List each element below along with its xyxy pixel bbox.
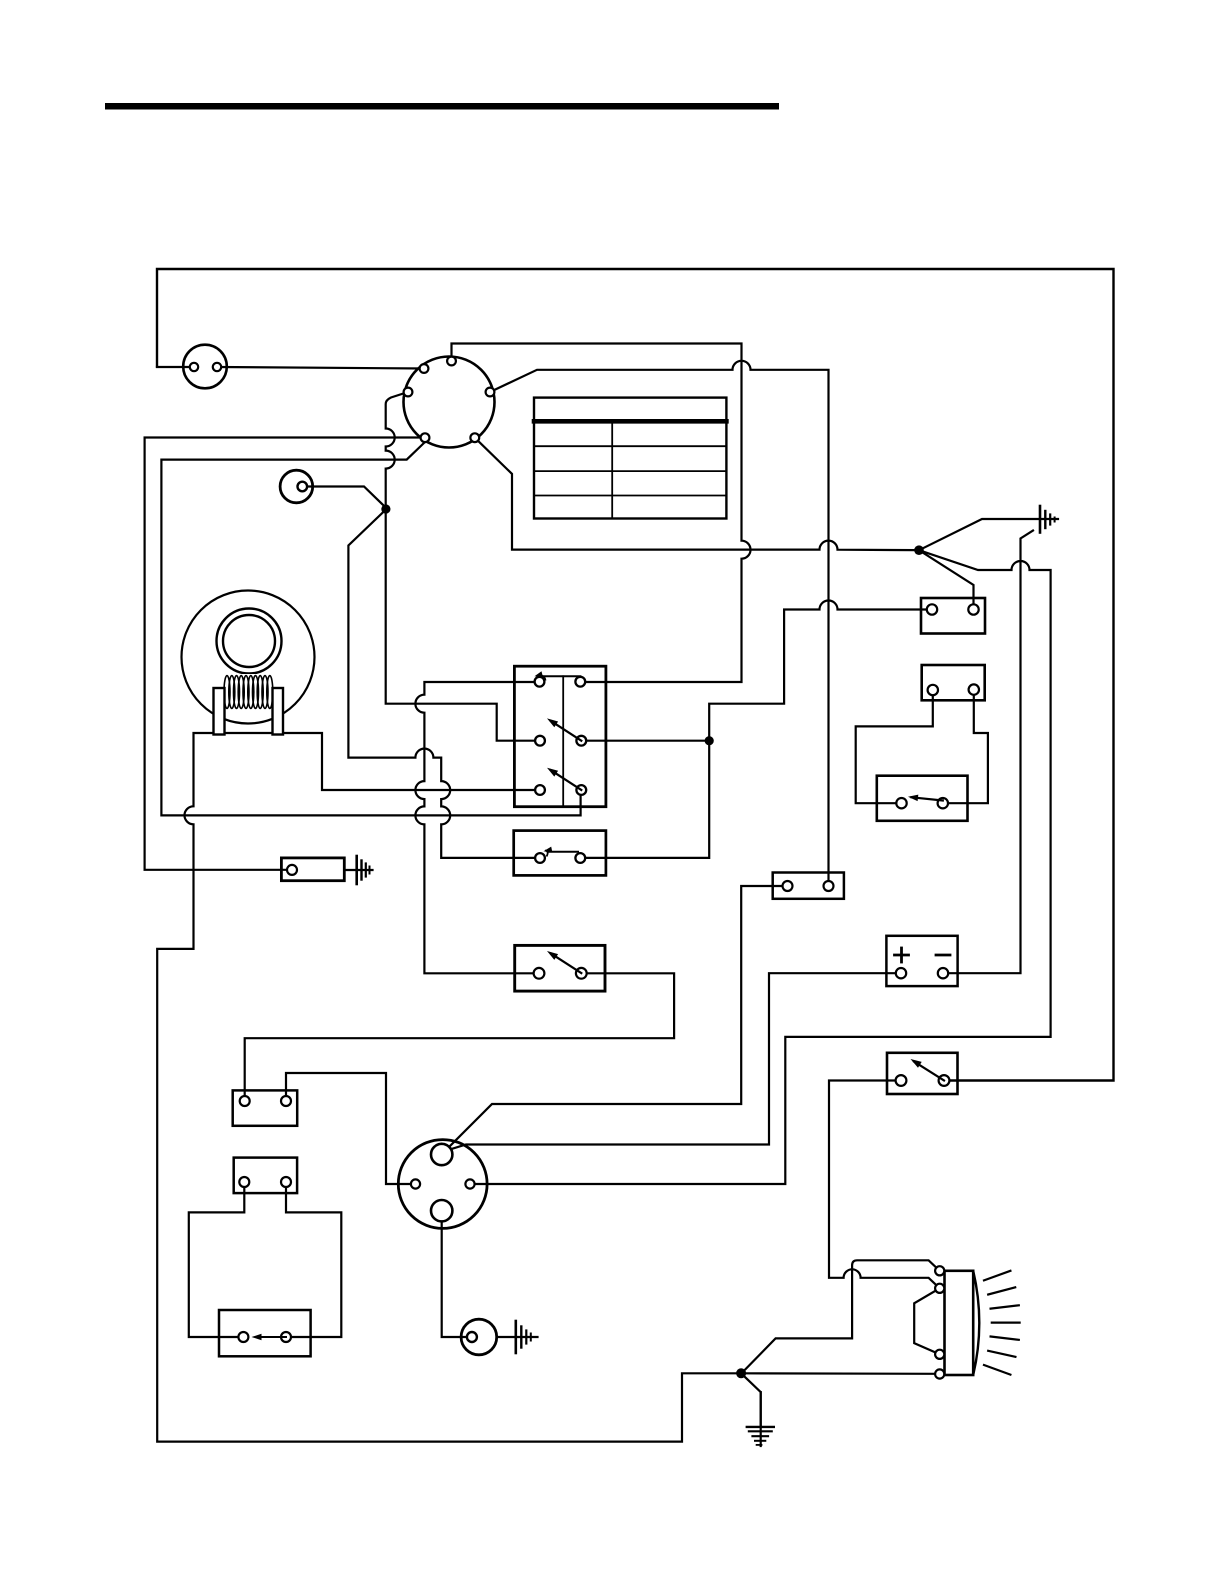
wire: left border into connector J1 (157, 366, 194, 368)
connector pin D (lower left) (421, 433, 430, 442)
kill terminal pin (298, 482, 308, 492)
connector pin C (left) (404, 388, 413, 397)
wire: node N2 via right loop to starter connector right pin, hop over x1020.5 (470, 550, 1051, 1184)
wire: starter connector bottom pin to ground terminal (442, 1221, 470, 1337)
starter switch contact B (576, 968, 587, 979)
ignition switch body (514, 666, 606, 807)
wire: starter switch contact B to connector K1 terminal A (245, 973, 674, 1101)
ignition switch tick arrow at terminal A (538, 676, 546, 681)
meter box (921, 598, 985, 634)
wire: connector pin F to node N2, hop over x828.5 (475, 438, 915, 550)
connector J1 pin 2 (213, 363, 221, 371)
kill terminal body (280, 470, 313, 503)
node N1 junction dot (381, 504, 390, 513)
connector pin B (upper left) (420, 364, 429, 373)
ignition switch lever 2 (551, 770, 581, 790)
meter terminal A (927, 604, 937, 614)
node N3 junction dot (705, 736, 714, 745)
fuel solenoid contact box (219, 1310, 311, 1356)
chassis ground G1 bars (1039, 506, 1042, 533)
starter connector bottom pin (431, 1200, 452, 1221)
light switch contact B (939, 1075, 950, 1086)
wire: ignition switch terminal D to node N3 (581, 740, 709, 742)
wire: connector K2 terminal B to fuel solenoid contact B (286, 1182, 341, 1337)
wire: light switch contact A down to headlight terminal 2, hop over x852 (829, 1081, 940, 1289)
fuel solenoid lever arrow (256, 1336, 286, 1338)
legend table row line 3 (534, 495, 726, 497)
legend table row line 1 (534, 445, 726, 447)
connector pin A (top) (447, 357, 456, 366)
wire: battery negative up to chassis ground G1 (943, 531, 1033, 974)
connector pin F (lower right) (470, 433, 479, 442)
solenoid terminal A (928, 685, 938, 695)
wire: connector J1 to ignition connector pin B (217, 367, 424, 369)
interlock relay lever (549, 851, 578, 853)
title underline bar (105, 103, 779, 110)
wire: node N2 to meter terminal B (919, 550, 974, 609)
diode module body (281, 858, 344, 881)
spark plug boss outer ring (217, 609, 282, 674)
starter connector left pin (411, 1179, 420, 1188)
starter connector top pin (431, 1144, 452, 1165)
ignition switch internal bus line (540, 675, 580, 677)
legend table row line 2 (534, 470, 726, 472)
headlight bulb reflector trapezoid (914, 1288, 940, 1354)
chassis ground G2 bars (355, 856, 358, 884)
magneto flywheel circle (182, 591, 315, 724)
light switch contact A (896, 1075, 907, 1086)
chassis ground G3 bars (514, 1321, 517, 1353)
light switch lever (914, 1062, 944, 1081)
wire: outer loop top/right border to light switch (157, 269, 1114, 1081)
headlight terminal 1 (935, 1266, 944, 1275)
solenoid coil box (922, 665, 985, 700)
fuel solenoid contact A (238, 1332, 248, 1342)
wire: ignition switch terminal A down left vertical to starter interlock switch, hops at y704, y790, y815 (415, 682, 540, 973)
battery positive terminal (896, 968, 906, 978)
headlight terminal 3 (935, 1350, 944, 1359)
ignition switch terminal E (535, 785, 545, 795)
ignition switch terminal F (576, 785, 586, 795)
wire: connector K1 terminal B to starter connector left pin (286, 1073, 416, 1184)
connector K1 terminal A (240, 1096, 250, 1106)
connector J1 pin 1 (190, 363, 198, 371)
connector K2 terminal A (239, 1177, 249, 1187)
solenoid terminal B (969, 684, 979, 694)
legend table header separator (thick) (534, 419, 726, 424)
battery negative terminal (938, 968, 948, 978)
battery plus sign (895, 954, 909, 957)
spark plug boss inner ring (223, 615, 275, 667)
ignition switch terminal C (535, 736, 545, 746)
connector pin E (right) (486, 388, 495, 397)
wire: headlight node N4 to earth ground G4 (741, 1373, 761, 1427)
wire: node N2 to chassis ground G1 (919, 519, 1058, 550)
starter safety switch body (515, 945, 605, 991)
headlight terminal 2 (935, 1284, 944, 1293)
starter connector body (398, 1140, 487, 1229)
connector K2 terminal B (281, 1177, 291, 1187)
wire: meter terminal A to node N3, hop over x828.5 (709, 601, 932, 738)
wire: node N1 to interlock relay coil terminal, hop over x424 at y758 (348, 510, 540, 858)
solenoid relay contact A (896, 798, 906, 808)
fuse body (773, 873, 844, 899)
headlight housing (945, 1271, 974, 1375)
wire: connector pin D to diode module pin (145, 438, 425, 870)
diode module pin (287, 865, 297, 875)
solenoid relay body (877, 776, 968, 821)
connector J1 (2-pin) body (183, 345, 227, 389)
wire: node N3 down to interlock relay contact B (580, 741, 709, 858)
starter switch lever (551, 954, 581, 974)
ground terminal pin (467, 1332, 477, 1342)
headlight rays (984, 1271, 1010, 1281)
ignition switch lever 1 (551, 721, 581, 741)
legend table column divider (611, 421, 613, 518)
wire: solenoid terminal B to solenoid relay contact B (943, 690, 988, 804)
wire: engine block outline to ignition switch terminal E and chassis run to headlight node (157, 733, 737, 1442)
coil left leg (214, 688, 225, 735)
coil right leg (273, 688, 284, 735)
headlight lens (973, 1271, 979, 1375)
solenoid relay lever (912, 797, 943, 800)
wire: connector pin D via left loop to ignition switch terminal F (161, 442, 580, 815)
ignition switch terminal B (575, 677, 585, 687)
wire: ground terminal to chassis ground G3 (497, 1336, 538, 1338)
wire: headlight node N4 to headlight terminal 4 (741, 1372, 935, 1375)
wire: connector pin A via top run to ignition switch terminal B, hop over spark wire at y550 (452, 344, 751, 683)
ignition harness connector (6-pin) body (404, 357, 495, 448)
interlock relay contact A (535, 853, 545, 863)
fuel solenoid contact B (281, 1332, 291, 1342)
connector K1 terminal B (281, 1096, 291, 1106)
legend table outer frame (534, 398, 726, 519)
interlock relay contact B (575, 853, 585, 863)
wire: solenoid terminal A to solenoid relay contact A (856, 690, 933, 803)
wire: battery positive to starter connector top pin (445, 973, 901, 1151)
wire: connector K2 terminal A to fuel solenoid contact A (189, 1182, 245, 1337)
light switch body (887, 1053, 958, 1094)
ignition coil winding band (222, 674, 274, 709)
meter terminal B (968, 604, 978, 614)
ground terminal body (461, 1319, 497, 1355)
solenoid relay contact B (938, 798, 948, 808)
fuse terminal A (783, 881, 793, 891)
wire: connector pin C down through node N1 to ignition switch terminal C, hops over y438, y460 (386, 392, 540, 741)
wire: diode module to chassis ground G2 (344, 869, 372, 871)
earth ground G4 (760, 1392, 762, 1446)
ignition switch terminal D (576, 736, 586, 746)
node N4 junction dot (736, 1368, 746, 1378)
connector K2 body (234, 1158, 297, 1194)
wire: fuse terminal A to starter connector top pin (446, 886, 788, 1150)
battery body (886, 936, 957, 986)
fuse terminal B (824, 881, 834, 891)
starter connector right pin (465, 1179, 474, 1188)
ignition switch terminal A (535, 677, 545, 687)
headlight terminal 4 (935, 1369, 944, 1378)
connector K1 body (233, 1090, 298, 1125)
battery minus sign (936, 954, 950, 957)
starter switch contact A (534, 968, 545, 979)
node N2 junction dot (914, 545, 924, 555)
interlock relay body (514, 831, 606, 876)
wire: connector pin E to fuse terminal B, hop over x741.5 (490, 361, 829, 886)
wire: headlight terminal 1 via loop to headlight node N4 (745, 1260, 940, 1370)
wire: kill terminal to node N1 (303, 487, 386, 508)
